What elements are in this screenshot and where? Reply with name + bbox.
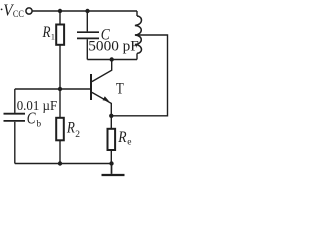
wire tank bottom C to L bbox=[87, 59, 137, 61]
svg-text:2: 2 bbox=[75, 130, 80, 140]
inductor L tapped coil bbox=[135, 11, 142, 60]
svg-text:R: R bbox=[66, 119, 75, 136]
node junction base / R1 R2 divider bbox=[58, 87, 62, 91]
svg-text:R: R bbox=[42, 24, 51, 41]
power terminal Vcc bbox=[26, 8, 32, 14]
capacitor Cb bbox=[4, 89, 42, 164]
wire R2 bottom lead bbox=[59, 140, 61, 163]
transistor T bbox=[91, 60, 124, 116]
svg-text:CC: CC bbox=[13, 10, 24, 20]
resistor R2 bbox=[56, 118, 80, 141]
collector lead bbox=[92, 60, 112, 82]
base bar bbox=[90, 74, 92, 100]
wire emitter node to Re bbox=[110, 116, 112, 129]
wire R1 bottom to base node to R2 top bbox=[59, 45, 61, 118]
node junction R2 bottom bbox=[58, 161, 62, 165]
wire bottom rail bbox=[15, 163, 112, 165]
svg-text:b: b bbox=[36, 120, 41, 130]
svg-text:T: T bbox=[116, 81, 124, 98]
capacitor C bbox=[77, 11, 110, 60]
resistor R1 bbox=[42, 24, 64, 45]
node junction emitter to tap rail bbox=[109, 114, 113, 118]
svg-text:5000 pF: 5000 pF bbox=[88, 39, 139, 55]
wire Re bottom lead bbox=[110, 150, 112, 164]
svg-text:R: R bbox=[117, 129, 127, 146]
wire R1 top lead bbox=[59, 11, 61, 25]
node junction top of C bbox=[85, 9, 89, 13]
svg-text:e: e bbox=[127, 137, 131, 147]
wire inductor tap to right rail down to emitter node bbox=[111, 35, 167, 116]
ground bbox=[102, 164, 125, 176]
node junction collector on tank bottom bbox=[110, 57, 114, 61]
node junction top of R1 bbox=[58, 9, 62, 13]
wire top rail Vcc to inductor bbox=[32, 10, 137, 12]
svg-text:0.01 µF: 0.01 µF bbox=[17, 99, 58, 114]
svg-text:1: 1 bbox=[51, 32, 55, 42]
wire base wire from Cb branch through R1R2 node to base bbox=[15, 88, 90, 90]
node junction ground bbox=[109, 161, 113, 165]
node Vcc label bbox=[1, 1, 24, 20]
emitter lead with arrow bbox=[92, 92, 111, 115]
resistor Re bbox=[108, 129, 132, 150]
